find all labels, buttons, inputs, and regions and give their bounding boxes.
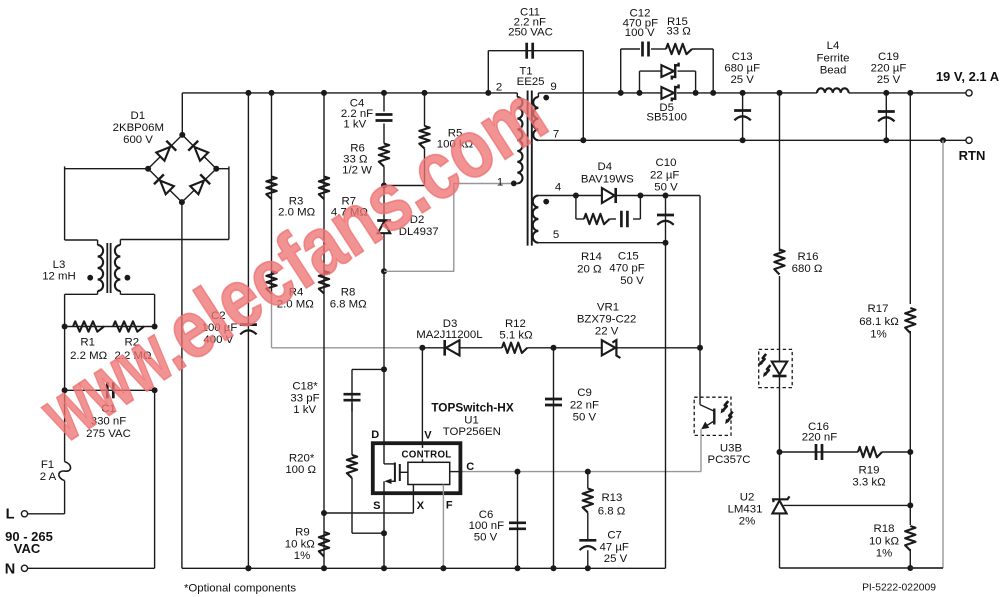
svg-text:5.1 kΩ: 5.1 kΩ (499, 329, 533, 341)
svg-text:68.1 kΩ: 68.1 kΩ (859, 316, 899, 328)
svg-text:1%: 1% (876, 548, 892, 560)
svg-text:220 nF: 220 nF (802, 432, 838, 444)
svg-text:D4: D4 (598, 161, 613, 173)
svg-text:SB5100: SB5100 (646, 112, 687, 124)
svg-text:1 kV: 1 kV (293, 404, 316, 416)
svg-text:RTN: RTN (959, 148, 986, 163)
svg-text:N: N (5, 562, 15, 578)
svg-text:C7: C7 (607, 529, 622, 541)
svg-text:R9: R9 (295, 527, 310, 539)
svg-text:R14: R14 (581, 251, 602, 263)
svg-text:Ferrite: Ferrite (817, 52, 850, 64)
svg-text:22 nF: 22 nF (570, 399, 599, 411)
svg-text:3.3 kΩ: 3.3 kΩ (852, 476, 886, 488)
svg-text:1%: 1% (870, 328, 886, 340)
svg-text:D1: D1 (131, 110, 146, 122)
svg-text:D: D (371, 429, 379, 441)
svg-text:V: V (424, 429, 432, 441)
svg-text:BAV19WS: BAV19WS (581, 174, 634, 186)
svg-text:L4: L4 (827, 40, 840, 52)
svg-text:R17: R17 (868, 303, 889, 315)
svg-text:R16: R16 (798, 251, 819, 263)
svg-text:U2: U2 (740, 492, 755, 504)
svg-text:C10: C10 (656, 157, 677, 169)
svg-text:4: 4 (555, 182, 561, 194)
svg-text:MA2J11200L: MA2J11200L (416, 329, 482, 341)
svg-text:R12: R12 (505, 318, 526, 330)
svg-text:R18: R18 (874, 523, 895, 535)
svg-text:9: 9 (550, 81, 556, 93)
svg-text:680 µF: 680 µF (724, 62, 760, 74)
svg-text:600 V: 600 V (123, 134, 153, 146)
svg-text:220 µF: 220 µF (871, 62, 907, 74)
svg-text:2 A: 2 A (40, 471, 57, 483)
svg-text:100 V: 100 V (625, 27, 655, 39)
svg-text:25 V: 25 V (730, 74, 754, 86)
svg-text:R8: R8 (341, 287, 356, 299)
svg-text:100 nF: 100 nF (469, 520, 505, 532)
svg-text:100 Ω: 100 Ω (285, 464, 316, 476)
svg-text:33 pF: 33 pF (290, 392, 319, 404)
svg-text:470 pF: 470 pF (609, 263, 645, 275)
svg-text:50 V: 50 V (620, 275, 644, 287)
svg-text:PC357C: PC357C (707, 454, 750, 466)
svg-text:25 V: 25 V (604, 553, 628, 565)
svg-text:10 kΩ: 10 kΩ (869, 535, 900, 547)
svg-text:6.8 MΩ: 6.8 MΩ (330, 299, 367, 311)
svg-text:2KBP06M: 2KBP06M (113, 122, 164, 134)
svg-text:R20*: R20* (289, 452, 315, 464)
svg-text:2%: 2% (739, 516, 755, 528)
svg-text:25 V: 25 V (877, 74, 901, 86)
svg-text:C15: C15 (618, 250, 639, 262)
svg-text:6.8 Ω: 6.8 Ω (598, 505, 626, 517)
svg-text:VR1: VR1 (597, 301, 619, 313)
svg-text:20 Ω: 20 Ω (577, 264, 602, 276)
svg-text:C18*: C18* (292, 380, 318, 392)
svg-text:50 V: 50 V (573, 411, 597, 423)
svg-text:F: F (446, 500, 453, 512)
svg-text:22 µF: 22 µF (650, 169, 679, 181)
svg-text:U3B: U3B (720, 442, 742, 454)
svg-text:12 mH: 12 mH (42, 271, 76, 283)
svg-text:C6: C6 (479, 509, 494, 521)
svg-text:L3: L3 (53, 259, 66, 271)
svg-text:47 µF: 47 µF (600, 541, 629, 553)
svg-text:TOP256EN: TOP256EN (443, 426, 501, 438)
svg-text:Bead: Bead (820, 64, 847, 76)
svg-text:PI-5222-022009: PI-5222-022009 (862, 583, 936, 594)
svg-text:680 Ω: 680 Ω (792, 263, 823, 275)
svg-text:22 V: 22 V (595, 325, 619, 337)
svg-text:X: X (417, 500, 425, 512)
svg-text:L: L (6, 507, 15, 523)
svg-text:250 VAC: 250 VAC (508, 26, 553, 38)
svg-text:CONTROL: CONTROL (402, 450, 452, 461)
svg-text:BZX79-C22: BZX79-C22 (577, 313, 637, 325)
svg-text:19 V, 2.1 A: 19 V, 2.1 A (936, 69, 1000, 84)
svg-text:5: 5 (553, 229, 559, 241)
svg-text:VAC: VAC (14, 541, 41, 556)
svg-text:LM431: LM431 (728, 504, 763, 516)
svg-text:TOPSwitch-HX: TOPSwitch-HX (431, 401, 514, 415)
svg-text:33 Ω: 33 Ω (666, 25, 691, 37)
svg-text:F1: F1 (41, 459, 54, 471)
svg-text:U1: U1 (464, 415, 479, 427)
svg-text:R13: R13 (601, 492, 622, 504)
svg-text:50 V: 50 V (654, 181, 678, 193)
svg-text:10 kΩ: 10 kΩ (285, 538, 316, 550)
svg-text:C13: C13 (732, 51, 753, 63)
svg-text:50 V: 50 V (474, 532, 498, 544)
svg-text:C9: C9 (577, 387, 592, 399)
svg-text:1 kV: 1 kV (343, 119, 366, 131)
svg-text:C19: C19 (878, 51, 899, 63)
svg-text:1%: 1% (294, 550, 310, 562)
svg-text:S: S (373, 500, 380, 512)
svg-text:R19: R19 (859, 465, 880, 477)
svg-text:*Optional components: *Optional components (184, 583, 296, 595)
